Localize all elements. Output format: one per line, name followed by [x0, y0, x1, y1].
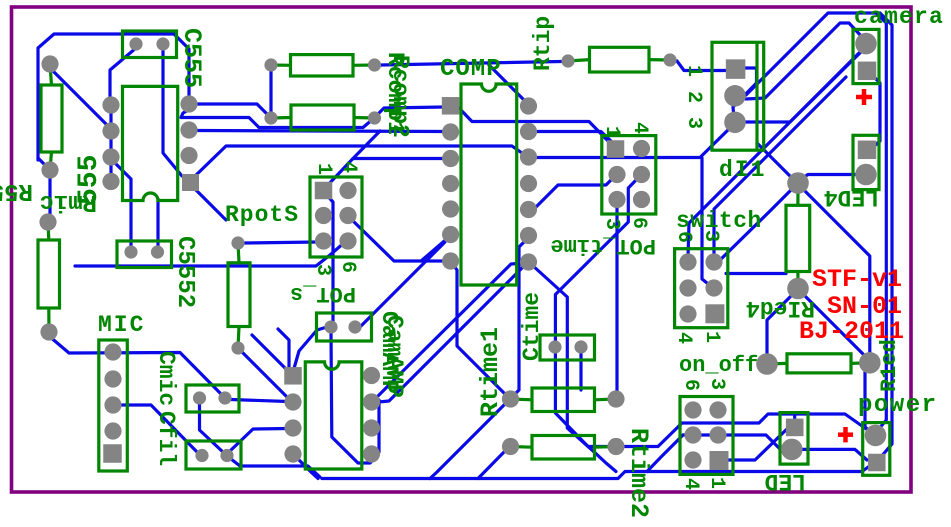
svg-text:Rcomp2: Rcomp2: [387, 55, 413, 138]
svg-text:STF-v1: STF-v1: [812, 265, 902, 294]
svg-text:C555: C555: [177, 28, 206, 88]
svg-text:3: 3: [311, 264, 334, 276]
svg-text:3: 3: [682, 117, 705, 129]
svg-text:4: 4: [672, 332, 695, 344]
svg-text:1: 1: [700, 331, 723, 343]
svg-text:Rtime2: Rtime2: [624, 428, 653, 518]
svg-text:Ctime: Ctime: [519, 292, 545, 361]
svg-text:4: 4: [628, 122, 651, 134]
svg-text:dI1: dI1: [719, 157, 766, 183]
svg-text:3: 3: [600, 218, 623, 230]
svg-text:6: 6: [627, 217, 650, 229]
svg-text:BJ-2011: BJ-2011: [799, 317, 904, 346]
svg-text:power: power: [858, 392, 938, 419]
svg-text:MIC: MIC: [98, 312, 145, 338]
svg-text:LED: LED: [765, 468, 806, 494]
svg-text:3: 3: [705, 378, 728, 390]
svg-text:R555: R555: [0, 177, 33, 204]
svg-text:4: 4: [679, 478, 702, 490]
svg-text:Cmic: Cmic: [153, 351, 179, 406]
svg-text:1: 1: [682, 65, 705, 77]
svg-text:6: 6: [336, 261, 359, 273]
svg-text:camera: camera: [854, 4, 944, 30]
svg-text:Cfil: Cfil: [153, 411, 179, 466]
svg-text:3: 3: [699, 230, 722, 242]
svg-text:RpotS: RpotS: [225, 202, 299, 228]
svg-text:6: 6: [679, 379, 702, 391]
svg-text:6: 6: [672, 231, 695, 243]
svg-text:C5552: C5552: [171, 236, 198, 308]
svg-text:on_off: on_off: [679, 353, 758, 378]
svg-text:LED4: LED4: [824, 184, 879, 210]
svg-text:CamAMP: CamAMP: [381, 315, 407, 398]
svg-text:1: 1: [600, 126, 623, 138]
svg-text:1: 1: [705, 477, 728, 489]
svg-text:2: 2: [682, 91, 705, 103]
svg-text:COMP: COMP: [440, 56, 502, 83]
svg-text:POT_s: POT_s: [290, 281, 356, 306]
svg-text:Rtip: Rtip: [530, 16, 556, 71]
svg-text:4: 4: [337, 161, 360, 173]
svg-text:R1ed: R1ed: [877, 339, 902, 392]
svg-text:Rmic: Rmic: [39, 188, 97, 215]
svg-text:POT_time: POT_time: [550, 233, 656, 258]
svg-text:Rtime1: Rtime1: [476, 327, 505, 417]
svg-text:1: 1: [312, 163, 335, 175]
